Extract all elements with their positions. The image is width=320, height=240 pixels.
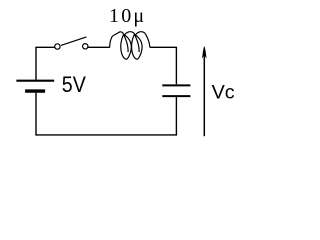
- svg-text:5V: 5V: [62, 72, 86, 97]
- svg-text:10μ: 10μ: [109, 5, 146, 27]
- svg-text:Vc: Vc: [212, 81, 235, 103]
